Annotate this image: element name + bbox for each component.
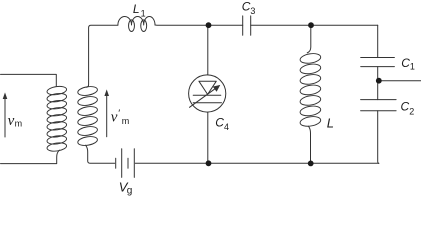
svg-text:C: C — [401, 56, 410, 70]
svg-text:3: 3 — [250, 6, 255, 16]
capacitor C2 — [361, 100, 397, 111]
node : junction dot top node B (C3/L/C1) — [308, 22, 314, 28]
wire : node A to C3 — [209, 24, 243, 26]
svg-text:L: L — [327, 115, 334, 130]
battery Vg plates — [116, 149, 135, 178]
capacitor C3 — [243, 16, 251, 35]
inductor L1 — [118, 16, 155, 25]
wire : input port top lead — [1, 74, 57, 86]
wire : L exit down to bottom rail — [308, 126, 310, 163]
svg-text:1: 1 — [410, 61, 415, 71]
varactor C4 : circle — [189, 75, 226, 112]
wire : mid node down to C2 — [377, 81, 379, 100]
svg-text:1: 1 — [141, 8, 146, 18]
varactor C4 : variability arrow — [190, 87, 218, 107]
wire : top node down to C4 — [207, 25, 209, 75]
wire : C4 down to bottom rail — [207, 112, 209, 163]
svg-text:L: L — [133, 2, 140, 16]
svg-text:C: C — [215, 115, 224, 129]
wire : C1 to mid node — [377, 67, 379, 81]
varactor C4 : triangle — [199, 81, 216, 94]
node : junction dot output node between C1 and C2 — [376, 78, 382, 84]
svg-text:m: m — [15, 119, 23, 129]
node : junction dot top node A (L1/C3/C4) — [206, 22, 212, 28]
inductor L — [299, 52, 321, 127]
inductor : transformer primary winding — [46, 85, 67, 152]
wire : C3 to top-right corner — [251, 24, 378, 26]
node : junction dot bottom node under C4 — [206, 160, 212, 166]
wire : bottom rail battery to right corner — [135, 162, 378, 164]
wire : primary exit + input port bottom lead — [1, 150, 60, 164]
capacitor C1 — [361, 58, 395, 67]
wire : top node down to L, entry hook — [307, 25, 311, 53]
svg-text:v: v — [8, 113, 15, 129]
wire : secondary top lead to top rail — [87, 25, 118, 87]
svg-text:m: m — [122, 116, 130, 126]
wire : secondary bottom lead to battery — [86, 145, 115, 163]
svg-text:g: g — [127, 185, 133, 196]
wire : C2 down to bottom-right corner — [378, 111, 379, 164]
svg-text:2: 2 — [409, 106, 414, 116]
inductor : transformer secondary winding — [77, 85, 98, 146]
svg-text:C: C — [242, 0, 251, 14]
svg-text:C: C — [401, 100, 410, 114]
node : v'_m arrow — [106, 92, 108, 137]
svg-text:4: 4 — [224, 122, 229, 132]
node : v_m arrow — [4, 95, 6, 137]
node : junction dot bottom node under L — [308, 161, 314, 167]
varactor C4 : plates — [193, 95, 221, 103]
wire : top-right corner down to C1 — [377, 25, 379, 57]
wire : output lead to right edge — [379, 80, 421, 82]
